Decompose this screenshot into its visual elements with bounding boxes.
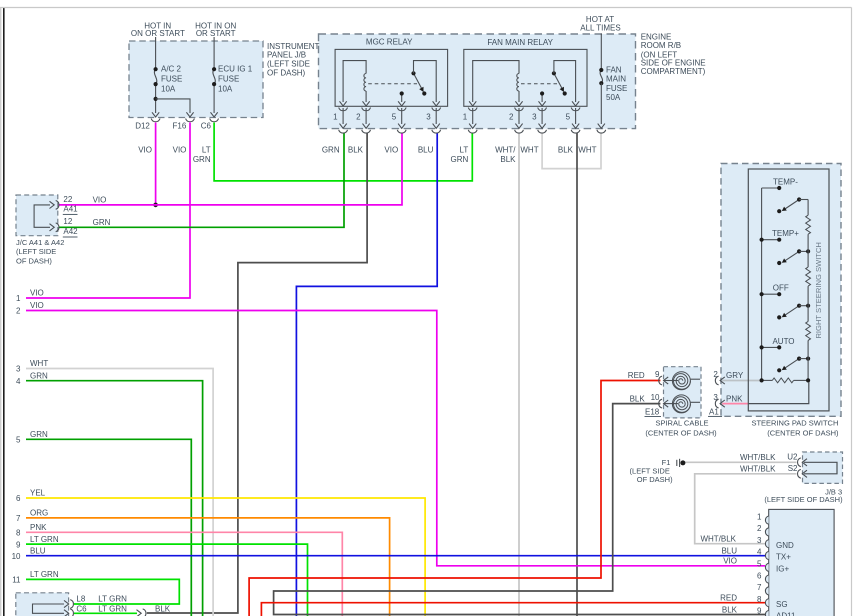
instrument panel J/B box — [129, 41, 263, 118]
fan relay contact pin 3 — [540, 91, 544, 102]
underline E18 — [645, 415, 662, 417]
wire WHT/BLK S2 to GND — [695, 474, 797, 544]
svg-text:BLU: BLU — [30, 546, 46, 555]
steering right bus seg3 — [807, 286, 809, 321]
J/B 3 box — [803, 452, 843, 483]
svg-text:A/C 2: A/C 2 — [161, 65, 182, 74]
J/C A41 A42 loop — [34, 205, 50, 227]
wire BLK spiral cable pin 10 to AD11 — [274, 404, 765, 615]
connector L8 — [64, 600, 73, 609]
wire GRY A1 pin 2 — [722, 380, 761, 382]
svg-text:VIO: VIO — [30, 289, 44, 298]
svg-text:2: 2 — [356, 112, 361, 121]
svg-text:(LEFT SIDE: (LEFT SIDE — [16, 247, 56, 256]
svg-text:WHT/BLK: WHT/BLK — [740, 453, 776, 462]
svg-text:6: 6 — [16, 494, 21, 503]
svg-text:C6: C6 — [76, 604, 87, 613]
svg-text:6: 6 — [757, 571, 762, 580]
svg-text:LT GRN: LT GRN — [30, 535, 59, 544]
connector S2 — [798, 469, 807, 478]
wire BLU MGC relay pin 3 — [296, 133, 437, 616]
MGC relay pin stubs — [343, 108, 436, 124]
steering right bus seg2 — [807, 234, 809, 267]
svg-text:AD11: AD11 — [776, 612, 796, 616]
svg-text:WHT/BLK: WHT/BLK — [700, 534, 736, 543]
J/C A41 & A42 box — [16, 195, 58, 236]
svg-text:OF DASH): OF DASH) — [267, 68, 306, 77]
connector C6 — [210, 112, 219, 121]
svg-text:GRN: GRN — [93, 218, 111, 227]
svg-text:ROOM R/B: ROOM R/B — [641, 41, 681, 50]
svg-text:A42: A42 — [63, 227, 78, 236]
svg-text:OF DASH): OF DASH) — [16, 256, 52, 265]
svg-text:WHT/BLK: WHT/BLK — [740, 465, 776, 474]
svg-text:TEMP+: TEMP+ — [772, 229, 799, 238]
switch row TEMP- — [762, 186, 782, 190]
svg-text:TEMP-: TEMP- — [773, 178, 798, 187]
connector C6 bottom — [64, 609, 73, 616]
feed line HOT AT ALL TIMES — [600, 34, 602, 71]
wire WHT/BLK fan relay pin 2 — [518, 133, 520, 616]
steering right bus seg1 — [807, 200, 809, 216]
svg-text:A41: A41 — [63, 204, 78, 213]
svg-text:WHT: WHT — [520, 145, 538, 154]
wire WHT/BLK F1 to U2 — [685, 461, 797, 463]
svg-text:E18: E18 — [645, 408, 660, 417]
svg-text:RED: RED — [628, 371, 645, 380]
switch blade OFF — [777, 304, 810, 320]
svg-text:OFF: OFF — [773, 284, 789, 293]
svg-text:7: 7 — [757, 583, 762, 592]
svg-text:7: 7 — [16, 514, 21, 523]
svg-text:(CENTER OF DASH): (CENTER OF DASH) — [645, 429, 717, 438]
svg-text:3: 3 — [713, 393, 718, 402]
svg-text:2: 2 — [509, 112, 514, 121]
svg-text:4: 4 — [757, 548, 762, 557]
svg-text:(CENTER OF DASH): (CENTER OF DASH) — [767, 429, 839, 438]
amplifier pin sockets — [765, 516, 768, 616]
fan relay pin stubs — [473, 108, 576, 124]
engine room R/B box — [319, 34, 636, 129]
svg-text:MGC RELAY: MGC RELAY — [366, 38, 413, 47]
svg-text:A1: A1 — [709, 408, 719, 417]
svg-text:LT: LT — [202, 145, 211, 154]
wire 10 BLU to TX+ — [26, 555, 765, 557]
switch row AUTO — [760, 345, 782, 349]
svg-text:10A: 10A — [218, 85, 233, 94]
connector A41 pin 22 — [50, 201, 59, 210]
PNK internal link — [749, 382, 809, 404]
MGC relay coil — [364, 74, 366, 92]
MGC relay contact pin 5 — [400, 91, 404, 102]
svg-text:F16: F16 — [173, 121, 187, 130]
underline A41 — [63, 213, 78, 215]
wire 7 ORG — [26, 518, 390, 616]
svg-text:8: 8 — [757, 595, 762, 604]
svg-text:1: 1 — [16, 294, 21, 303]
wire 9 LT GRN — [26, 544, 308, 616]
svg-text:FAN: FAN — [606, 66, 622, 75]
svg-text:LT GRN: LT GRN — [30, 570, 59, 579]
svg-text:WHT/: WHT/ — [495, 145, 516, 154]
wire BLK MGC relay pin 2 — [147, 133, 367, 614]
svg-text:WHT: WHT — [30, 359, 48, 368]
svg-text:VIO: VIO — [30, 301, 44, 310]
bottom J/C box — [16, 593, 69, 616]
MGC relay lower connectors — [339, 124, 441, 133]
svg-text:C6: C6 — [201, 121, 212, 130]
svg-text:9: 9 — [757, 607, 762, 616]
svg-text:VIO: VIO — [138, 145, 152, 154]
MGC relay switch blade — [411, 71, 426, 95]
svg-text:MAIN: MAIN — [606, 75, 626, 84]
MGC relay box — [335, 49, 448, 106]
underline A42 — [63, 236, 78, 238]
svg-text:RED: RED — [720, 594, 737, 603]
connector F16 — [186, 112, 195, 121]
switch blade TEMP+ — [777, 249, 810, 265]
svg-text:ORG: ORG — [30, 509, 48, 518]
fan fuse lower line — [600, 83, 602, 124]
svg-text:WHT: WHT — [578, 145, 596, 154]
noise filter F1 — [677, 459, 686, 467]
svg-text:8: 8 — [16, 529, 21, 538]
wire VIO A41 to MGC relay pin 5 — [59, 133, 403, 205]
svg-text:BLU: BLU — [721, 546, 737, 555]
svg-text:9: 9 — [655, 370, 660, 379]
wire 1 VIO from F16 — [26, 123, 190, 299]
feed line HOT IN fuse A/C 2 — [155, 37, 157, 113]
spiral cable box — [664, 367, 702, 418]
fuse ECU IG 1 10A — [212, 67, 216, 86]
svg-text:10: 10 — [651, 393, 660, 402]
svg-text:S2: S2 — [788, 464, 798, 473]
svg-text:FUSE: FUSE — [218, 75, 239, 84]
svg-text:PNK: PNK — [30, 523, 47, 532]
svg-text:BLK: BLK — [348, 145, 364, 154]
svg-text:RIGHT STEERING SWITCH: RIGHT STEERING SWITCH — [814, 242, 823, 338]
label RIGHT STEERING SWITCH — [814, 242, 823, 338]
svg-text:PANEL J/B: PANEL J/B — [267, 51, 306, 60]
svg-text:FUSE: FUSE — [606, 84, 627, 93]
svg-text:ON OR START: ON OR START — [131, 29, 185, 38]
resistor R2 — [806, 267, 811, 286]
connector E18 pin 9 — [659, 376, 668, 385]
svg-text:5: 5 — [16, 436, 21, 445]
switch row OFF — [760, 292, 782, 296]
bottom row wire — [760, 378, 811, 382]
svg-text:22: 22 — [63, 195, 72, 204]
MGC relay pin arrows — [339, 101, 441, 110]
fuse FAN MAIN 50A — [599, 68, 603, 85]
wire 3 WHT — [26, 369, 213, 616]
switch blade AUTO — [777, 357, 810, 373]
svg-text:BLK: BLK — [500, 155, 516, 164]
FAN MAIN relay box — [464, 49, 587, 106]
svg-text:D12: D12 — [135, 121, 150, 130]
feed line HOT IN ON fuse ECU IG 1 — [213, 37, 215, 113]
svg-text:VIO: VIO — [723, 557, 737, 566]
branch wire to F16 — [156, 99, 190, 113]
connector E18 pin 10 — [659, 399, 668, 408]
switch blade TEMP- — [777, 197, 808, 213]
svg-text:J/C A41 & A42: J/C A41 & A42 — [16, 238, 64, 247]
svg-text:STEERING PAD SWITCH: STEERING PAD SWITCH — [751, 418, 838, 427]
svg-text:ECU IG 1: ECU IG 1 — [218, 65, 253, 74]
amplifier connector block — [769, 509, 834, 616]
connector U2 — [798, 458, 807, 467]
svg-text:U2: U2 — [787, 453, 798, 462]
svg-text:FAN MAIN RELAY: FAN MAIN RELAY — [487, 38, 553, 47]
junction VIO node — [153, 203, 158, 208]
svg-text:3: 3 — [532, 112, 537, 121]
svg-text:VIO: VIO — [173, 145, 187, 154]
resistor R1 — [806, 215, 811, 234]
svg-text:INSTRUMENT: INSTRUMENT — [267, 42, 320, 51]
resistor R3 — [806, 321, 811, 340]
svg-text:3: 3 — [16, 365, 21, 374]
wire 4 GRN — [26, 381, 203, 616]
underline A1 — [708, 415, 722, 417]
svg-text:GRN: GRN — [193, 155, 211, 164]
switch row TEMP+ — [760, 238, 782, 242]
svg-text:GRN: GRN — [322, 145, 340, 154]
fuse A/C 2 10A — [154, 67, 158, 86]
svg-text:1: 1 — [757, 512, 762, 521]
svg-text:COMPARTMENT): COMPARTMENT) — [641, 67, 706, 76]
svg-text:TX+: TX+ — [776, 553, 791, 562]
svg-text:SPIRAL CABLE: SPIRAL CABLE — [655, 418, 708, 427]
svg-text:IG+: IG+ — [776, 564, 789, 573]
wire 5 GRN — [26, 439, 191, 616]
svg-text:GRN: GRN — [451, 155, 469, 164]
svg-text:9: 9 — [16, 540, 21, 549]
svg-text:GND: GND — [776, 541, 794, 550]
svg-text:FUSE: FUSE — [161, 75, 182, 84]
svg-text:(LEFT SIDE: (LEFT SIDE — [267, 60, 310, 69]
fan fuse connector — [597, 124, 606, 133]
MGC relay coil frame — [343, 61, 366, 102]
wire RED spiral cable pin 9 — [249, 381, 660, 616]
svg-text:GRY: GRY — [726, 371, 744, 380]
svg-text:10: 10 — [12, 552, 21, 561]
svg-text:(LEFT SIDE OF DASH): (LEFT SIDE OF DASH) — [764, 495, 843, 504]
svg-text:1: 1 — [463, 112, 468, 121]
svg-text:L8: L8 — [76, 595, 85, 604]
wire LT GRN C6 to fan relay pin 1 — [214, 123, 472, 181]
svg-text:10A: 10A — [161, 85, 176, 94]
svg-text:ALL TIMES: ALL TIMES — [580, 24, 620, 33]
wire 8 PNK — [26, 532, 342, 616]
svg-text:LT GRN: LT GRN — [98, 595, 127, 604]
svg-text:AUTO: AUTO — [772, 337, 794, 346]
connector D12 — [151, 112, 160, 121]
fan relay lower connectors — [468, 124, 580, 133]
svg-text:BLU: BLU — [418, 145, 434, 154]
svg-text:YEL: YEL — [30, 489, 46, 498]
wire 2 VIO to IG+ — [26, 311, 765, 566]
svg-text:5: 5 — [757, 560, 762, 569]
wire 6 YEL — [26, 498, 425, 616]
fan relay switch blade — [552, 71, 567, 95]
wire BLK fan relay pin 5 — [576, 133, 578, 616]
fan relay dashed link — [521, 83, 557, 85]
svg-text:11: 11 — [12, 576, 21, 585]
svg-text:3: 3 — [426, 112, 431, 121]
svg-text:VIO: VIO — [93, 196, 107, 205]
svg-text:OR START: OR START — [196, 29, 236, 38]
svg-text:BLK: BLK — [558, 145, 574, 154]
svg-text:BLK: BLK — [630, 394, 646, 403]
svg-text:1: 1 — [333, 112, 338, 121]
wire 11 LT GRN to J/C L8 — [26, 579, 179, 604]
svg-text:2: 2 — [757, 524, 762, 533]
J/B 3 loop — [804, 462, 837, 474]
MGC relay pivot to pin 3 — [414, 61, 437, 102]
fan relay coil — [517, 74, 519, 92]
spiral coil E18 pin 9 — [664, 372, 700, 390]
svg-text:BLK: BLK — [722, 605, 738, 614]
wire WHT fan relay pin 3 to fan fuse — [542, 133, 601, 169]
connector A42 pin 12 — [50, 223, 59, 232]
svg-text:2: 2 — [16, 307, 21, 316]
steering switch inner box — [748, 169, 829, 411]
svg-text:GRN: GRN — [30, 430, 48, 439]
wire LT GRN J/C C6 — [74, 612, 137, 614]
svg-text:4: 4 — [16, 377, 21, 386]
steering pad switch box — [721, 164, 841, 417]
spiral coil E18 pin 10 — [664, 395, 700, 413]
svg-text:BLK: BLK — [155, 604, 171, 613]
svg-text:12: 12 — [63, 217, 72, 226]
svg-text:5: 5 — [392, 112, 397, 121]
wire PNK A1 pin 3 — [722, 403, 748, 405]
connector A1 pin 3 — [715, 399, 724, 408]
fan relay coil frame — [473, 61, 519, 102]
MGC relay dashed link — [368, 83, 417, 85]
svg-text:5: 5 — [566, 112, 571, 121]
svg-text:VIO: VIO — [384, 145, 398, 154]
connector A1 pin 2 — [715, 376, 724, 385]
svg-text:50A: 50A — [606, 93, 621, 102]
wire RED to SG — [261, 603, 765, 616]
svg-text:OF DASH): OF DASH) — [637, 475, 673, 484]
resistor R4 — [772, 378, 793, 383]
wire GRN A42 to MGC relay pin 1 — [59, 133, 345, 228]
svg-text:2: 2 — [713, 370, 718, 379]
svg-text:3: 3 — [757, 536, 762, 545]
svg-text:LT: LT — [460, 145, 469, 154]
fan relay pivot to pin 5 — [554, 61, 576, 102]
steering right bus seg4 — [807, 340, 809, 380]
steering left bus — [761, 188, 763, 380]
svg-text:SG: SG — [776, 600, 788, 609]
connector LT GRN to BLK — [137, 609, 146, 616]
bottom J/C loop — [33, 604, 65, 613]
svg-text:GRN: GRN — [30, 371, 48, 380]
svg-text:PNK: PNK — [726, 394, 743, 403]
fan relay pin arrows — [468, 101, 580, 110]
wire VIO from fuse D12 — [155, 123, 157, 205]
svg-text:LT GRN: LT GRN — [98, 604, 127, 613]
junction fuse branch — [154, 97, 158, 101]
